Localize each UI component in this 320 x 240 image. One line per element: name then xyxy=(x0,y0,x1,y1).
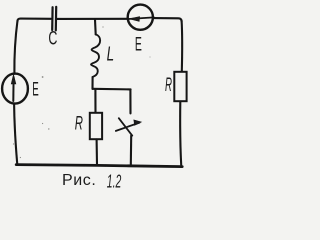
svg-text:Рис.: Рис. xyxy=(62,172,96,189)
wire: node down to resistor R (middle) xyxy=(94,89,96,113)
wire: inductor to node xyxy=(91,77,93,89)
source E (top) arrowhead xyxy=(129,17,139,22)
source E (left, circle) xyxy=(2,74,28,104)
wire bottom xyxy=(16,165,182,167)
switch SA blade xyxy=(119,118,132,135)
svg-text:E: E xyxy=(135,34,142,56)
wire top-right: source E circle to right corner xyxy=(153,18,181,21)
switch SA arrow shaft xyxy=(116,123,140,131)
wire left lower: source E down to bottom corner xyxy=(14,103,17,163)
svg-text:R: R xyxy=(165,74,172,96)
wire: switch branch upper xyxy=(129,89,131,113)
wire top-middle: capacitor to source E circle xyxy=(57,18,128,20)
wire: top rail down to inductor L xyxy=(94,20,97,35)
svg-text:R: R xyxy=(75,113,83,135)
svg-text:E: E xyxy=(32,78,39,100)
source E (top, circle) xyxy=(128,5,153,30)
resistor R (middle) body xyxy=(90,113,102,139)
capacitor C1 right plate xyxy=(55,7,58,31)
svg-text:L: L xyxy=(107,44,115,66)
wire right lower: resistor R down to bottom corner xyxy=(180,101,181,165)
wire: node to switch branch (horizontal) xyxy=(93,88,131,91)
switch SA arrowhead xyxy=(134,120,142,125)
svg-text:C: C xyxy=(48,28,57,49)
capacitor C1 left plate xyxy=(51,7,54,30)
wire top-left: corner to capacitor xyxy=(18,19,51,21)
source E (left) arrowhead xyxy=(11,75,16,84)
inductor L coil xyxy=(91,34,100,77)
resistor R (right) body xyxy=(174,72,186,101)
wire: switch branch lower xyxy=(130,136,132,166)
paper speckles xyxy=(13,26,151,158)
source E (top) arrow shaft xyxy=(128,17,154,19)
wire left upper: corner down to source E xyxy=(14,21,17,74)
svg-text:1.2: 1.2 xyxy=(107,172,122,192)
source E (left) arrow shaft xyxy=(12,77,14,101)
wire: resistor R (middle) to bottom rail xyxy=(96,139,99,164)
wire right upper: corner down to resistor R xyxy=(181,21,184,72)
